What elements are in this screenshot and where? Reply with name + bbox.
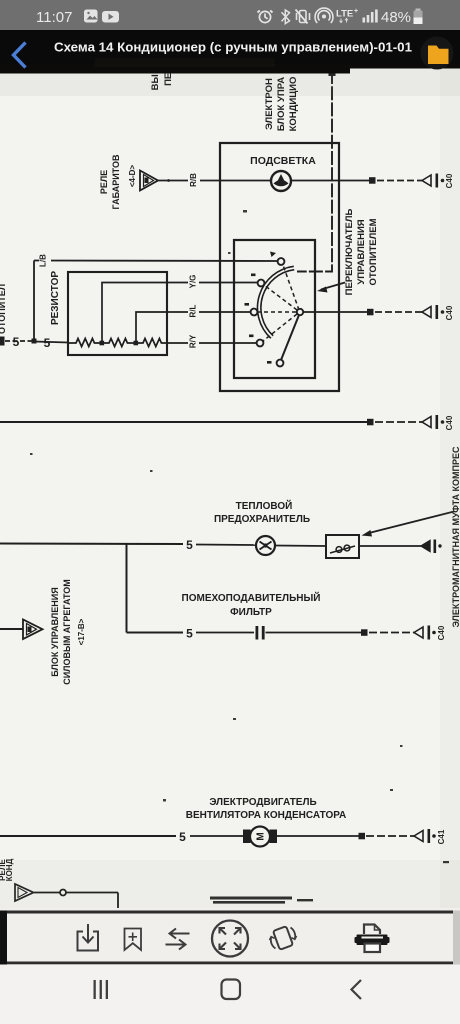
expand circle icon [212,921,248,957]
battery [416,9,421,11]
thermal sensor circle [256,536,275,555]
gallery icon [84,10,98,23]
switch rotary arc [259,268,294,337]
download icon [78,932,99,951]
vibrate icon [296,10,310,24]
motor M symbol [243,830,251,844]
arrow from switch label to inner rect [321,283,345,290]
ground C40 (long row) [422,417,431,428]
TOOLBAR [0,908,460,965]
svg-text:48%: 48% [381,9,411,26]
contact pin marks [245,252,277,364]
wire: smudged fine print bottom centre [210,861,449,904]
wire: feed from conditioner control unit down into switch [297,70,332,272]
arrow from clutch label to fuse [367,512,454,534]
data saver icon [315,8,333,23]
wire: pivot to ground C40 [304,311,368,313]
youtube icon [102,11,119,23]
ground (thermal fuse row) [421,541,430,552]
wire lamp to ground [291,180,369,182]
label: ПОМЕХОПОДАВИТЕЛЬНЫЙ ФИЛЬТР [182,591,321,618]
svg-text:+: + [354,8,358,15]
label: ТЕПЛОВОЙ ПРЕДОХРАНИТЕЛЬ [214,499,310,525]
relay triangle symbol [140,171,158,191]
ground C40 (switch row) [422,307,431,318]
node: ЭЛЕКТРОННЫЙ БЛОК УПРАВЛЕНИЯ КОНДИЦИОНЕРОМ (vertical labels) [264,77,299,132]
label: ЭЛЕКТРОДВИГАТЕЛЬ ВЕНТИЛЯТОРА КОНДЕНСАТОРА [186,797,347,821]
switch dashed wiper lines [258,265,299,341]
bookmark+ icon [125,929,142,951]
wire: thermal fuse row [0,543,183,546]
STATUS BAR [0,0,460,30]
printer icon [364,925,380,935]
resistor tap 1 to Y/G row [102,283,259,342]
wire R/B row [159,180,272,182]
switch labels ПЕРЕКЛЮЧАТЕЛЬ УПРАВЛЕНИЯ ОТОПИТЕЛЕМ [344,208,379,295]
bluetooth icon [282,10,290,24]
back chevron [14,43,26,68]
thermal fuse box [326,535,359,558]
svg-text:Схема 14 Кондиционер (с ручным: Схема 14 Кондиционер (с ручным управлени… [54,40,413,55]
signal bars [363,10,378,23]
wire: noise filter row [127,632,184,634]
capacitor [256,626,259,640]
swap arrows icon [170,929,190,939]
switch solid wiper to bottom contact [281,315,299,360]
node: БЛОК УПРАВЛЕНИЯ СИЛОВЫМ АГРЕГАТОМ stub [0,628,23,630]
svg-text:11:07: 11:07 [36,9,72,26]
wire: condenser fan motor row [0,835,176,837]
resistor R/Y bottom wire with three zigzag resistors [68,339,256,347]
svg-text:LTE: LTE [336,9,353,20]
ground C40 (filter row) [414,627,423,638]
wire: branch down from fuse row [126,544,128,633]
node: partial top labels (cut by app bar) [150,61,174,90]
relay РЕЛЕ ГАБАРИТОВ labels [99,154,137,209]
NAV BAR [0,965,460,1024]
folder icon [421,37,454,70]
wire: long row across page to ground C40 [0,421,369,423]
APP BAR [0,30,460,74]
ground C41 (motor row) [414,831,423,842]
switch contacts [251,258,304,366]
node: scan speckles [30,210,403,802]
alarm icon [258,11,273,23]
ground C40 (R/B row) [422,175,431,186]
block: heater control switch inner rect [234,240,315,378]
block: conditioner control unit outer rect [220,143,339,391]
wire: L/B vertical feed and top wire to switch contact 1 [33,261,35,342]
resistor tap 2 to R/L row [136,312,251,341]
rotate icon [273,926,293,950]
